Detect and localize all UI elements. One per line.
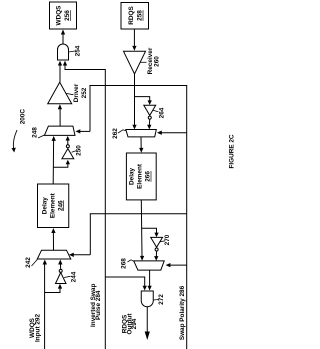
wire gate254 output to WDQS box xyxy=(61,30,65,45)
svg-text:WDQS: WDQS xyxy=(56,5,63,26)
wire receiver output to mux262 left input xyxy=(132,74,136,130)
svg-text:268: 268 xyxy=(121,258,128,269)
label Swap Polarity 286 xyxy=(179,285,186,340)
svg-text:266: 266 xyxy=(145,171,152,182)
svg-text:270: 270 xyxy=(164,234,171,245)
svg-text:248: 248 xyxy=(32,127,39,138)
box RDQS 258 xyxy=(121,3,149,30)
wire mux248 select from swap line xyxy=(76,129,91,133)
svg-text:260: 260 xyxy=(154,56,161,67)
svg-text:Delay: Delay xyxy=(128,167,135,184)
mux 248 xyxy=(44,126,75,135)
wire swap branch to mux242 select xyxy=(90,214,186,255)
label WDQS Input 292 xyxy=(29,314,42,342)
label 244 xyxy=(64,271,77,282)
svg-text:Swap Polarity 286: Swap Polarity 286 xyxy=(179,285,186,340)
wire pulse line to gate254 right input xyxy=(63,61,67,70)
mux 242 xyxy=(37,250,71,259)
and-gate 272 xyxy=(141,291,153,307)
label Driver 252 xyxy=(66,83,88,102)
wire inverter244 output to mux242 right input xyxy=(58,260,62,270)
label 268 xyxy=(121,258,134,269)
inverter 244 xyxy=(56,269,67,283)
svg-text:258: 258 xyxy=(137,10,144,21)
label 250 xyxy=(72,145,83,156)
wire gate272 output arrow RDQS out xyxy=(145,307,150,340)
svg-text:Pulse 284: Pulse 284 xyxy=(95,290,102,320)
delay element 266 xyxy=(126,153,156,200)
label Inverted Swap Pulse 284 xyxy=(90,284,102,327)
wire mux248 output to driver input xyxy=(58,104,62,126)
wire branch to inverter264 input xyxy=(135,97,152,105)
label 262 xyxy=(112,128,126,139)
svg-text:262: 262 xyxy=(112,128,119,139)
label 254 xyxy=(69,45,82,56)
receiver 260 triangle xyxy=(124,51,146,74)
label 248 xyxy=(32,127,45,138)
wire pulse branch to gate272 left input xyxy=(105,277,147,291)
driver 252 triangle xyxy=(48,82,72,103)
delay element 246 xyxy=(38,184,69,228)
label FIGURE 2C xyxy=(229,134,236,168)
label RDQS Output 294 xyxy=(121,313,138,335)
label 272 xyxy=(153,294,165,305)
wire mux268 output to gate272 right input xyxy=(147,270,151,290)
svg-text:242: 242 xyxy=(25,257,32,268)
and-gate 254 xyxy=(58,44,69,60)
svg-text:294: 294 xyxy=(131,318,138,329)
wire mux262 output to delay266 input xyxy=(139,137,143,153)
wire mux242 select from swap line xyxy=(69,253,90,257)
inverter 250 xyxy=(62,145,74,159)
wire wdqs input line xyxy=(43,260,47,349)
svg-text:264: 264 xyxy=(159,107,166,118)
wire mux268 select from swap line xyxy=(166,263,187,267)
wire branch to inverter244 input xyxy=(45,284,63,293)
label 200C with arrow xyxy=(12,109,27,153)
wire delay246 output to mux248 left input xyxy=(52,136,56,184)
svg-text:Delay: Delay xyxy=(42,197,49,214)
svg-text:Element: Element xyxy=(136,163,143,189)
svg-text:244: 244 xyxy=(70,271,77,282)
wire RDQS box to receiver input xyxy=(132,29,136,51)
label 242 xyxy=(25,257,37,268)
wire inverter270 output to mux268 right input xyxy=(154,251,158,261)
mux 268 xyxy=(134,261,164,270)
wire branch to inverter250 input xyxy=(53,160,70,168)
svg-text:200C: 200C xyxy=(19,109,26,125)
wire delay266 output to mux268 left input xyxy=(140,200,144,261)
svg-text:Input 292: Input 292 xyxy=(35,314,42,342)
svg-text:246: 246 xyxy=(57,200,64,211)
wire inverter250 output to mux248 right input xyxy=(66,136,70,145)
box WDQS 256 xyxy=(50,2,77,29)
svg-text:256: 256 xyxy=(64,10,71,21)
wire mux242 output to delay246 input xyxy=(51,228,55,250)
net swap polarity line xyxy=(90,86,187,349)
mux 262 xyxy=(126,130,157,137)
svg-text:250: 250 xyxy=(75,145,82,156)
svg-text:272: 272 xyxy=(158,294,165,305)
net inverted swap pulse line xyxy=(65,62,105,349)
label 270 xyxy=(160,234,171,245)
svg-text:252: 252 xyxy=(81,87,88,98)
wire driver to gate254 left input xyxy=(58,61,62,83)
wire branch to inverter270 input xyxy=(142,228,159,237)
label 264 xyxy=(153,107,166,118)
inverter 270 xyxy=(151,237,163,251)
svg-text:Driver: Driver xyxy=(73,83,80,102)
svg-text:FIGURE 2C: FIGURE 2C xyxy=(229,134,236,168)
svg-text:254: 254 xyxy=(75,45,82,56)
svg-text:RDQS: RDQS xyxy=(128,6,135,25)
label Receiver 260 xyxy=(141,47,161,74)
wire inverter264 output to mux262 right input xyxy=(147,119,151,129)
wire mux262 select from swap line xyxy=(157,131,187,135)
svg-text:Element: Element xyxy=(49,192,56,218)
inverter 264 xyxy=(144,105,156,119)
